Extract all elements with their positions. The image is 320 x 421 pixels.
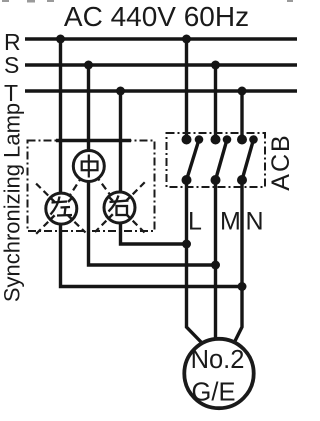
white underlay lamp L2 <box>52 199 71 218</box>
svg-text:ACB: ACB <box>267 133 295 190</box>
dashed cross extensions lamp L2 <box>36 183 86 234</box>
breaker pole 2 blade <box>216 140 228 181</box>
wire N from ACB to generator <box>234 180 242 343</box>
node S-lamp <box>84 61 93 70</box>
svg-text:N: N <box>246 208 264 236</box>
svg-text:L: L <box>188 208 202 236</box>
node S-ACB <box>211 61 220 70</box>
node lamp-left to N <box>238 282 247 291</box>
lamp L3 (右) circle <box>104 192 135 223</box>
node T-lamp <box>116 87 125 96</box>
wire L from ACB to generator <box>187 180 203 343</box>
pole1 top terminal <box>182 135 192 145</box>
wire bus R <box>25 37 297 40</box>
wire T to ACB pole3 <box>240 91 243 140</box>
wire bus S <box>25 63 297 66</box>
wire R to ACB pole1 <box>185 39 188 140</box>
synchronizing lamp box (dash-dot) <box>28 141 155 232</box>
character 左 in lamp L2 <box>51 197 73 216</box>
pole3 blade top <box>249 135 258 144</box>
wire lamp-right drop from T to elbow to node on L <box>121 91 187 244</box>
cropped text remnants top edge <box>2 0 293 3</box>
svg-text:T: T <box>4 80 18 106</box>
solid segment on lamp box top edge <box>56 139 131 142</box>
breaker pole 3 blade <box>242 140 254 181</box>
svg-text:AC 440V 60Hz: AC 440V 60Hz <box>64 1 249 32</box>
svg-text:M: M <box>220 208 241 236</box>
node R-lamp <box>56 35 65 44</box>
wire lamp-left drop from R to elbow to node on N <box>61 39 243 287</box>
pole3 bottom terminal <box>237 175 247 185</box>
node lamp-mid to M <box>211 261 220 270</box>
svg-text:Synchronizing Lamp: Synchronizing Lamp <box>0 103 25 302</box>
node lamp-right to L <box>182 240 191 249</box>
junction dots on buses and nodes <box>56 35 247 292</box>
lamp L2 (左) circle <box>46 193 77 224</box>
dashed link lamp-mid to lamp-left <box>61 166 89 209</box>
white underlay lamp L3 <box>110 198 129 217</box>
lamp L3 cross <box>109 197 131 219</box>
lamp L2 cross <box>50 198 72 220</box>
wire M from ACB to generator <box>214 180 217 340</box>
pole1 bottom terminal <box>182 175 192 185</box>
breaker terminal dots <box>182 135 258 186</box>
pole2 bottom terminal <box>211 175 221 185</box>
wire lamp-mid drop from S to elbow to node on M <box>89 65 216 265</box>
generator G/E circle <box>184 339 253 408</box>
svg-text:No.2: No.2 <box>191 346 245 374</box>
dashed cross extensions lamp L3 <box>95 182 146 233</box>
svg-text:G/E: G/E <box>192 379 236 407</box>
breaker pole 1 blade <box>187 140 200 181</box>
lamp L1 (中) circle <box>73 151 104 182</box>
character 右 in lamp L3 <box>109 196 129 216</box>
wire bus T <box>25 89 297 92</box>
svg-text:S: S <box>4 52 19 78</box>
node R-ACB <box>182 35 191 44</box>
pole3 top terminal <box>237 135 247 145</box>
ACB box (dash-dot) <box>167 133 266 187</box>
pole1 blade top <box>195 135 204 144</box>
wire S to ACB pole2 <box>214 65 217 140</box>
character 中 in lamp L1 <box>82 155 98 178</box>
pole2 top terminal <box>211 135 221 145</box>
dashed link lamp-mid to lamp-right <box>89 166 120 208</box>
node T-ACB <box>238 87 247 96</box>
pole2 blade top <box>223 135 232 144</box>
